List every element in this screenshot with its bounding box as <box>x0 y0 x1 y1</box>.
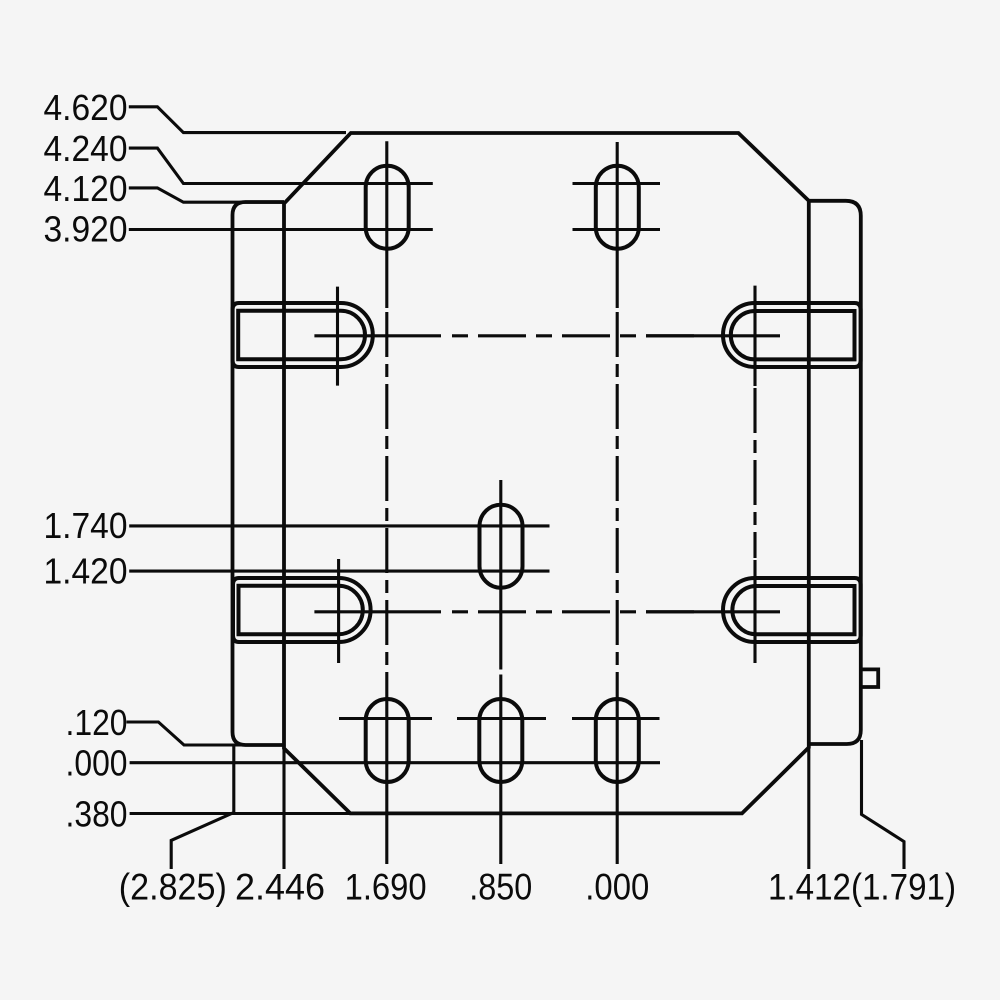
svg-text:1.420: 1.420 <box>44 550 128 591</box>
leader (1.791) <box>862 740 905 869</box>
leader .120 <box>126 722 284 745</box>
lower-right slot crosshair horizontal <box>646 610 780 613</box>
obround hole top-right <box>596 166 639 249</box>
crosshair tick upper hole top-right <box>573 182 661 185</box>
upper-right slot inner <box>731 311 855 359</box>
dash-dot centerline vertical x=386.8 <box>385 312 388 672</box>
upper-left slot crosshair horizontal <box>314 334 441 337</box>
obround hole bottom-left <box>366 699 409 782</box>
svg-text:4.620: 4.620 <box>44 87 128 128</box>
leader 4.620 <box>129 107 346 133</box>
crosshair tick hole bottom-middle <box>457 717 546 720</box>
dash-dot centerline horizontal upper slots <box>452 334 700 337</box>
leader .380 merged with body bottom edge <box>130 812 352 815</box>
upper-right slot outer <box>723 303 861 367</box>
dash-dot centerline vertical x=755 <box>753 388 756 558</box>
svg-text:.380: .380 <box>66 794 128 835</box>
upper-left slot outer <box>233 303 373 367</box>
svg-text:1.690: 1.690 <box>345 867 427 908</box>
crosshair tick hole bottom-left <box>339 717 432 720</box>
svg-text:1.412(1.791): 1.412(1.791) <box>768 867 956 908</box>
svg-text:.000: .000 <box>66 743 128 784</box>
obround hole top-left <box>366 166 409 249</box>
svg-text:4.120: 4.120 <box>44 168 128 209</box>
leader 4.120 <box>129 188 284 202</box>
svg-text:.850: .850 <box>469 867 532 908</box>
body outline octagon <box>284 133 809 813</box>
upper-left slot inner <box>238 311 365 359</box>
leader 1.740 <box>129 524 549 527</box>
extension line 2.446 (body left edge continued) <box>282 748 285 869</box>
svg-text:3.920: 3.920 <box>44 208 128 249</box>
lower-left slot crosshair horizontal <box>314 610 441 613</box>
obround hole bottom-middle <box>479 699 522 782</box>
leader 1.420 <box>129 570 549 573</box>
obround hole bottom-right <box>596 699 639 782</box>
svg-text:.120: .120 <box>66 702 128 743</box>
crosshair tick hole bottom-right <box>572 717 660 720</box>
lower-right slot crosshair vertical <box>753 560 756 663</box>
svg-text:2.446: 2.446 <box>235 867 325 908</box>
dash-dot centerline horizontal lower slots <box>452 610 700 613</box>
leader .000 <box>130 761 660 764</box>
crosshair vertical hole middle <box>499 480 502 670</box>
svg-text:1.740: 1.740 <box>44 505 128 546</box>
lower-left slot outer <box>233 578 371 642</box>
leader 4.240 <box>129 148 433 183</box>
upper-left slot crosshair vertical <box>336 287 339 386</box>
right rail <box>809 201 861 744</box>
crosshair tick lower hole top-right <box>573 228 661 231</box>
svg-text:.000: .000 <box>585 867 649 908</box>
crosshair vertical hole bottom-middle, extension to label .850 <box>499 675 502 865</box>
crosshair vertical hole top-left <box>385 141 388 308</box>
svg-text:4.240: 4.240 <box>44 128 128 169</box>
leader (2.825) <box>171 745 234 869</box>
small tab on right edge <box>861 669 879 687</box>
leader 3.920 <box>129 228 433 231</box>
svg-text:(2.825): (2.825) <box>119 867 227 908</box>
crosshair vertical hole bottom-left, extension to label 1.690 <box>385 672 388 864</box>
lower-right slot inner <box>732 586 854 634</box>
crosshair vertical hole bottom-right, extension to label .000 <box>616 672 619 864</box>
extension line 1.412 (body right edge continued) <box>807 748 810 870</box>
lower-left slot inner <box>239 586 363 634</box>
crosshair vertical hole top-right <box>616 142 619 308</box>
left rail <box>233 202 285 745</box>
dash-dot centerline vertical x=617.2 <box>616 312 619 672</box>
lower-right slot outer <box>723 578 861 642</box>
obround hole middle <box>480 505 523 588</box>
upper-right slot crosshair horizontal <box>646 334 780 337</box>
upper-right slot crosshair vertical <box>753 286 756 386</box>
lower-left slot crosshair vertical <box>337 559 340 663</box>
